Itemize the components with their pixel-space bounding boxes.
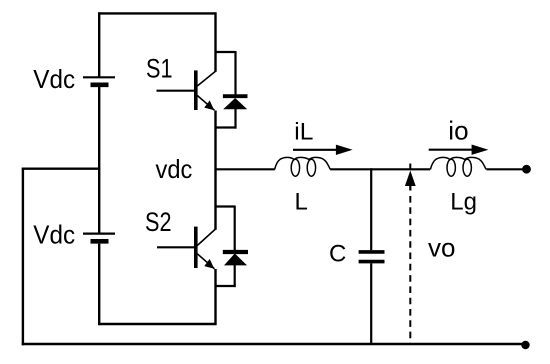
transistor S2 emitter lead [197,254,214,269]
transistor S1 bar [194,70,198,110]
battery V2 long plate [83,233,115,235]
transistor S2 emitter arrow [204,259,214,269]
wire left DC link upper [98,12,100,76]
transistor S2 bar [194,227,198,268]
wire vdc node to inductor L [216,168,275,170]
arrow iL [293,149,340,151]
wire S1 diode branch bottom [216,126,237,128]
arrow vo head [405,171,416,187]
capacitor C bottom plate [359,260,385,264]
transistor S2 base lead [157,246,194,248]
battery V1 long plate [83,76,115,78]
wire Lg to output terminal [486,168,523,170]
node output terminal bottom [521,341,529,349]
svg-text:L: L [295,189,308,216]
wire top rail to S1 collector [214,12,216,71]
wire S2 diode branch bottom [216,285,236,287]
wire capacitor bottom [370,263,372,344]
svg-text:S1: S1 [146,53,173,83]
wire S1 diode branch top [216,51,236,53]
wire S1 emitter to vdc node [214,111,216,230]
transistor S2 collector lead [197,229,215,246]
wire top rail [98,12,217,14]
arrow vo tip above wire [409,164,411,171]
diode D2 triangle [224,253,247,265]
node output terminal top [522,165,531,174]
wire diode D1 bottom [234,109,236,129]
wire diode D2 top [234,206,236,251]
wire battery V2 down [98,244,100,326]
diode D1 triangle [223,98,247,109]
svg-text:io: io [448,115,468,145]
transistor S1 emitter arrow [204,100,214,110]
wire midpoint to left rail [22,167,99,169]
wire S2 emitter down [214,269,216,325]
wire diode D1 top [234,51,236,95]
diode D2 cathode bar [223,250,248,254]
wire vo dashed [409,196,411,345]
wire left outer vertical [22,168,24,346]
wire lower DC return horizontal [99,323,215,325]
wire midpoint to battery V2 [98,169,100,233]
capacitor C top plate [359,250,385,254]
svg-text:vdc: vdc [156,154,193,184]
svg-text:C: C [329,241,346,268]
transistor S1 base lead [157,90,195,92]
svg-text:vo: vo [428,233,455,263]
wire inductor L to Lg [330,168,430,170]
svg-text:S2: S2 [145,207,172,237]
inductor L [275,157,331,176]
inductor Lg [430,157,486,176]
wire diode D2 bottom [234,265,236,288]
wire capacitor top [370,168,372,250]
svg-text:Vdc: Vdc [33,64,75,94]
battery V1 short plate [91,83,109,88]
battery V2 short plate [91,239,109,244]
wire S2 diode branch top [216,205,235,207]
wire bottom rail [22,343,526,346]
svg-text:Lg: Lg [450,189,477,216]
wire battery V1 to midpoint [98,87,100,170]
arrow io [429,149,476,151]
diode D1 cathode bar [223,94,248,98]
svg-text:Vdc: Vdc [33,220,75,250]
transistor S1 emitter lead [197,96,214,111]
svg-text:iL: iL [294,119,313,146]
arrow vo stem [409,185,411,191]
transistor S1 collector lead [197,71,215,86]
